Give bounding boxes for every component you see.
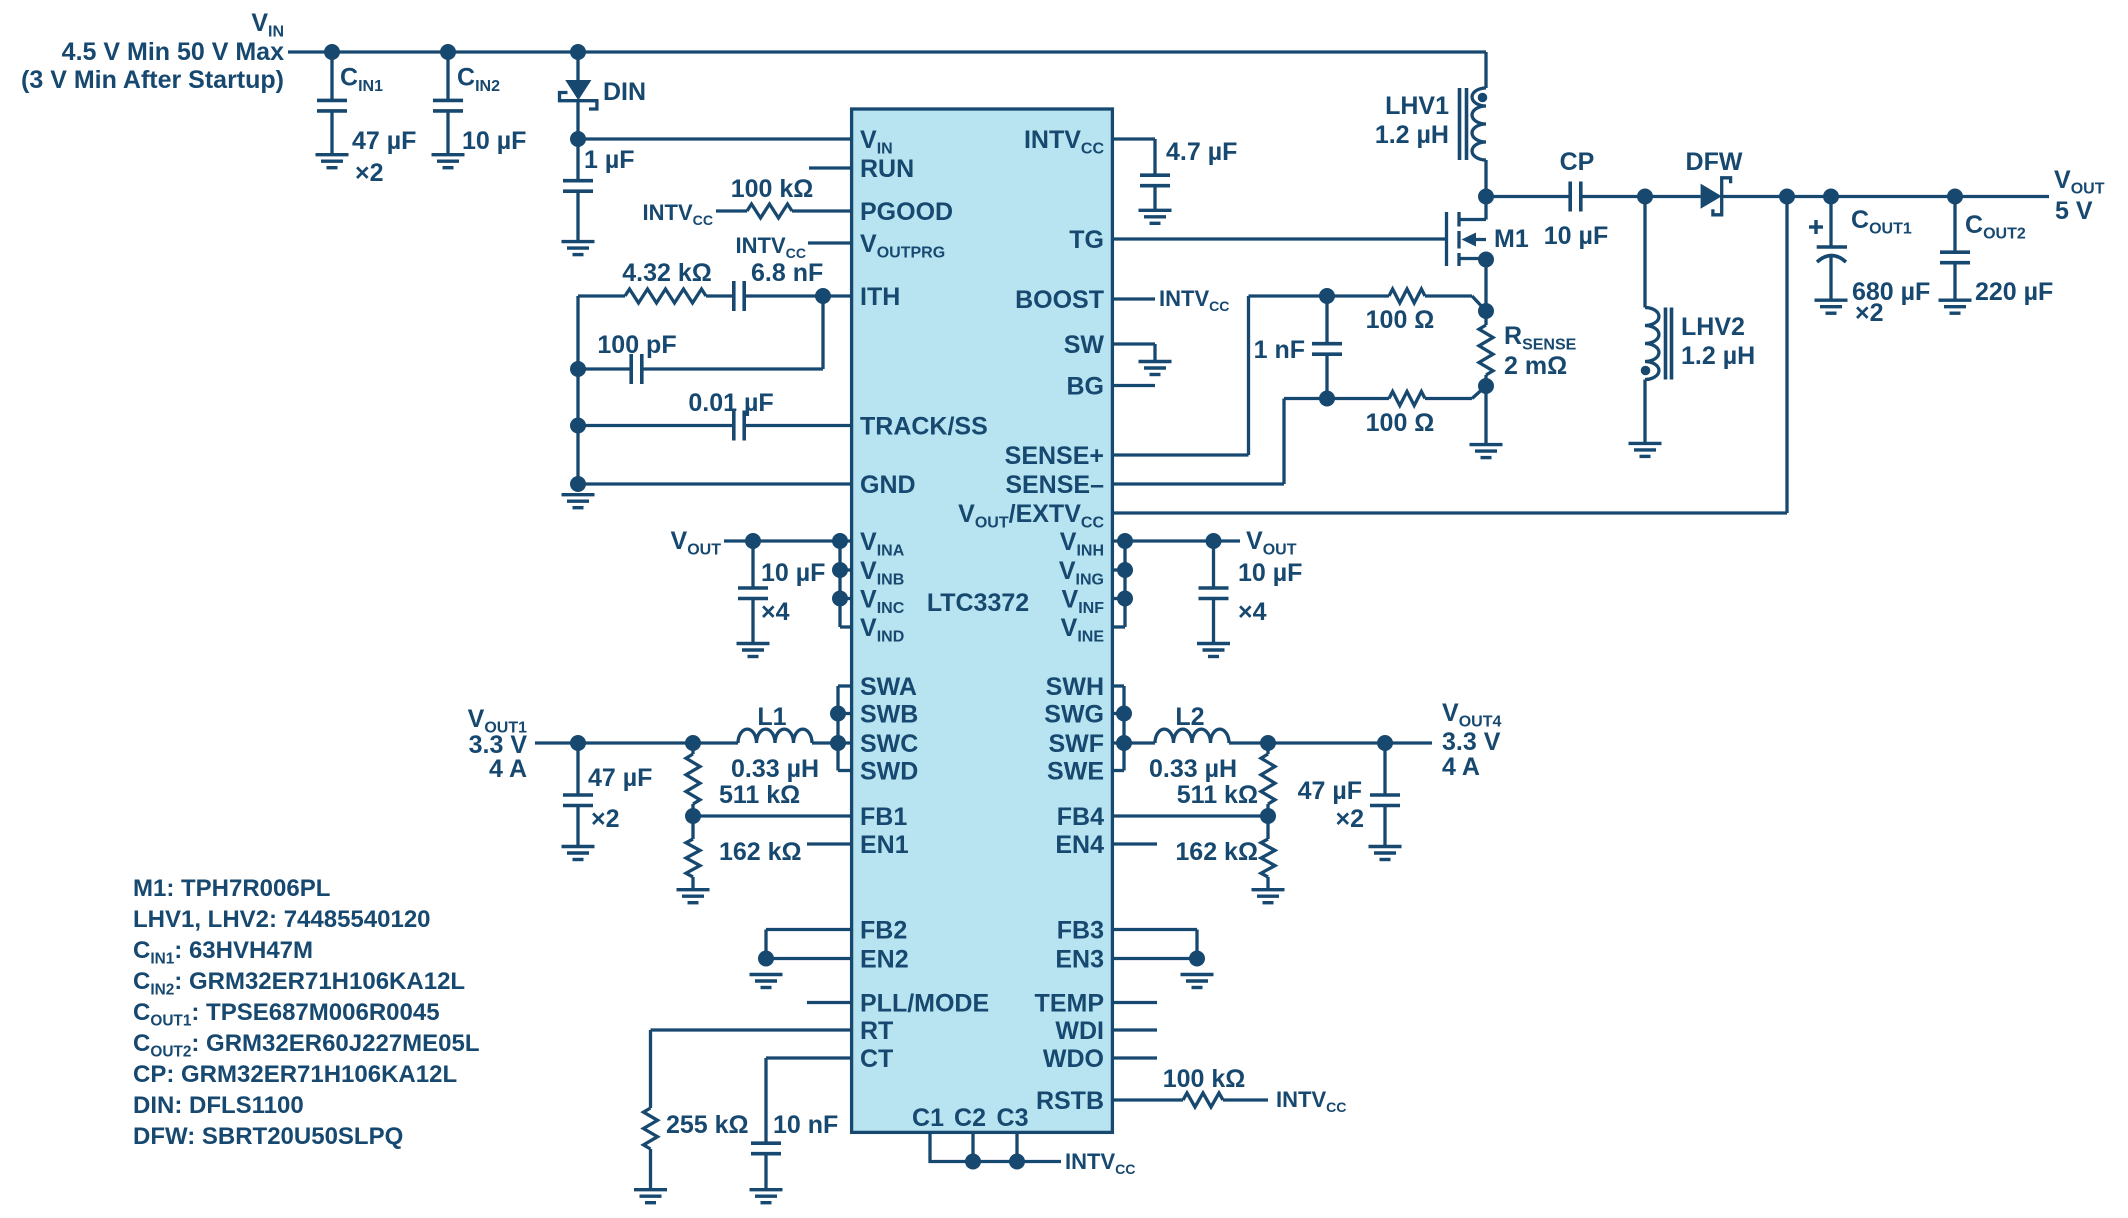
node junction VINB bbox=[832, 562, 848, 578]
ground 1uF bbox=[562, 242, 595, 255]
svg-text:EN3: EN3 bbox=[1055, 946, 1104, 974]
wire SW pin stub bbox=[1112, 344, 1155, 362]
pin label GND bbox=[860, 471, 916, 499]
svg-text:SWH: SWH bbox=[1046, 673, 1104, 701]
pin label SWE bbox=[1047, 758, 1104, 786]
node junction VINA bracket bbox=[832, 533, 848, 549]
capacitor 4.7uF bbox=[1112, 138, 1237, 210]
pin label WDI bbox=[1055, 1017, 1104, 1045]
wire RSENSE to ground bbox=[1484, 386, 1487, 445]
pin label VING bbox=[1059, 557, 1104, 589]
svg-text:10 µF: 10 µF bbox=[1238, 559, 1302, 587]
svg-text:DIN: DIN bbox=[603, 78, 646, 106]
wire FB1 pin bbox=[693, 814, 852, 817]
wire switch node rail bbox=[1486, 195, 1570, 198]
svg-text:255 kΩ: 255 kΩ bbox=[666, 1111, 749, 1139]
resistor 4.32k bbox=[578, 259, 734, 303]
node junction 47uF left bbox=[570, 735, 586, 751]
svg-text:FB2: FB2 bbox=[860, 917, 907, 945]
svg-text:LHV2: LHV2 bbox=[1681, 313, 1745, 341]
node junction ITH bbox=[815, 288, 831, 304]
wire BOOST pin stub bbox=[1112, 297, 1155, 300]
wire C1 C2 C3 to INTVCC bbox=[930, 1132, 1061, 1161]
node junction RSENSE top bbox=[1478, 303, 1494, 319]
svg-text:(3 V Min After Startup): (3 V Min After Startup) bbox=[21, 66, 284, 94]
inductor LHV2 1.2uH bbox=[1641, 197, 1755, 444]
svg-text:M1: M1 bbox=[1494, 225, 1529, 253]
pin label VOUT/EXTVCC bbox=[958, 500, 1104, 532]
parts list bbox=[133, 875, 480, 1150]
pin label SENSE+ bbox=[1005, 442, 1104, 470]
ground 162k right bbox=[1252, 890, 1285, 903]
node junction 47uF right bbox=[1377, 735, 1393, 751]
svg-text:SWD: SWD bbox=[860, 758, 918, 786]
transistor M1 bbox=[1447, 197, 1529, 312]
svg-text:0.01 µF: 0.01 µF bbox=[688, 389, 773, 417]
svg-text:SWE: SWE bbox=[1047, 758, 1104, 786]
svg-text:100 pF: 100 pF bbox=[597, 331, 676, 359]
svg-text:100 kΩ: 100 kΩ bbox=[731, 175, 814, 203]
ground EN2 bbox=[750, 975, 783, 988]
pin label FB1 bbox=[860, 803, 907, 831]
node junction 511k left bbox=[685, 735, 701, 751]
pin label PGOOD bbox=[860, 198, 953, 226]
node VOUT output label bbox=[2054, 166, 2105, 225]
node VIN input label bbox=[21, 9, 284, 94]
diode DFW bbox=[1686, 148, 1743, 215]
svg-text:×2: ×2 bbox=[1855, 299, 1884, 327]
wire CP to DFW bbox=[1581, 195, 1701, 198]
svg-text:511 kΩ: 511 kΩ bbox=[719, 781, 800, 809]
wire VINH row bbox=[1112, 539, 1240, 542]
svg-text:RUN: RUN bbox=[860, 155, 914, 183]
svg-text:FB4: FB4 bbox=[1057, 803, 1104, 831]
svg-text:C2: C2 bbox=[954, 1104, 986, 1132]
node junction VINC bbox=[832, 591, 848, 607]
wire BG pin stub bbox=[1112, 384, 1155, 387]
pin label SWD bbox=[860, 758, 918, 786]
pin label RUN bbox=[860, 155, 914, 183]
capacitor COUT2 220uF bbox=[1940, 197, 2053, 307]
svg-text:10 µF: 10 µF bbox=[1544, 222, 1608, 250]
pin label VIND bbox=[860, 614, 904, 646]
node junction EN2 bbox=[758, 951, 774, 967]
svg-text:SWC: SWC bbox=[860, 730, 918, 758]
resistor 511k left bbox=[686, 743, 800, 816]
ground COUT2 bbox=[1939, 300, 1972, 313]
wire PLL/MODE pin stub bbox=[807, 1001, 852, 1004]
wire sense top row bbox=[1249, 294, 1390, 297]
svg-text:1.2 µH: 1.2 µH bbox=[1375, 121, 1449, 149]
ground COUT1 bbox=[1815, 300, 1848, 313]
pin label VINH bbox=[1060, 528, 1104, 560]
ground SW bbox=[1139, 362, 1172, 375]
svg-text:2 mΩ: 2 mΩ bbox=[1504, 352, 1567, 380]
svg-text:TG: TG bbox=[1069, 226, 1104, 254]
wire GND pin bbox=[578, 482, 852, 485]
capacitor 6.8nF bbox=[734, 259, 852, 311]
capacitor 10uF x4 left bbox=[738, 541, 825, 644]
node junction DIN anode bbox=[570, 44, 586, 60]
wire VIN pin bbox=[578, 137, 852, 140]
svg-text:DFW: SBRT20U50SLPQ: DFW: SBRT20U50SLPQ bbox=[133, 1123, 403, 1150]
svg-text:TEMP: TEMP bbox=[1035, 990, 1104, 1018]
svg-text:4.7 µF: 4.7 µF bbox=[1166, 138, 1237, 166]
pin label EN3 bbox=[1055, 946, 1104, 974]
pin label SWF bbox=[1048, 730, 1104, 758]
svg-text:WDO: WDO bbox=[1043, 1045, 1104, 1073]
capacitor COUT1 680uF polarized bbox=[1809, 197, 1930, 328]
svg-text:LHV1: LHV1 bbox=[1385, 92, 1449, 120]
pin label SWB bbox=[860, 701, 918, 729]
net label VOUT right bbox=[1246, 527, 1297, 559]
pin label VINB bbox=[860, 557, 904, 589]
wire VIN top rail bbox=[288, 50, 1486, 53]
ground EN3 bbox=[1181, 975, 1214, 988]
svg-text:162 kΩ: 162 kΩ bbox=[719, 838, 802, 866]
pin label CT bbox=[860, 1045, 893, 1073]
wire SW A-D bracket bbox=[838, 686, 852, 771]
svg-text:4.5 V Min 50 V Max: 4.5 V Min 50 V Max bbox=[62, 38, 284, 66]
svg-text:CP: GRM32ER71H106KA12L: CP: GRM32ER71H106KA12L bbox=[133, 1061, 457, 1088]
resistor 100 ohm top bbox=[1366, 289, 1486, 334]
op-amp U1 LTC3372 regulator IC body bbox=[852, 109, 1113, 1132]
node junction EN3 bbox=[1189, 951, 1205, 967]
svg-text:162 kΩ: 162 kΩ bbox=[1175, 838, 1258, 866]
ground 10uF left bbox=[737, 644, 770, 657]
node junction RSENSE bottom bbox=[1478, 378, 1494, 394]
node junction M1 drain bbox=[1478, 189, 1494, 205]
node VOUT1 output label bbox=[468, 705, 528, 783]
ground 47uF right bbox=[1369, 847, 1402, 860]
node junction 10uF left bbox=[745, 533, 761, 549]
svg-text:1 nF: 1 nF bbox=[1254, 336, 1305, 364]
node junction VINH bracket bbox=[1117, 533, 1133, 549]
node junction COUT2 bbox=[1947, 189, 1963, 205]
wire VOUT/EXTVCC to output bbox=[1112, 197, 1787, 514]
svg-text:0.33 µH: 0.33 µH bbox=[731, 755, 819, 783]
svg-text:×4: ×4 bbox=[761, 598, 790, 626]
capacitor 0.01uF bbox=[578, 389, 852, 441]
net label INTVCC at BOOST bbox=[1159, 286, 1229, 314]
svg-text:4 A: 4 A bbox=[1442, 753, 1480, 781]
svg-text:M1: TPH7R006PL: M1: TPH7R006PL bbox=[133, 875, 330, 902]
svg-text:5 V: 5 V bbox=[2055, 197, 2093, 225]
pin label SWA bbox=[860, 673, 917, 701]
svg-text:DFW: DFW bbox=[1686, 148, 1743, 176]
node junction 0.01uF left bbox=[570, 418, 586, 434]
net label VOUT left bbox=[671, 527, 722, 559]
svg-text:EN4: EN4 bbox=[1055, 831, 1104, 859]
node junction SWB bbox=[830, 706, 846, 722]
wire VOUTPRG pin stub bbox=[808, 241, 852, 244]
pin label TG bbox=[1069, 226, 1104, 254]
svg-text:47 µF: 47 µF bbox=[352, 127, 416, 155]
pin label SWC bbox=[860, 730, 918, 758]
svg-text:LTC3372: LTC3372 bbox=[927, 589, 1029, 617]
pin label VOUTPRG bbox=[860, 230, 945, 262]
node junction DIN cathode / VIN pin bbox=[570, 131, 586, 147]
ground LHV2 bbox=[1629, 443, 1662, 456]
svg-text:RT: RT bbox=[860, 1017, 893, 1045]
svg-text:4.32 kΩ: 4.32 kΩ bbox=[622, 259, 712, 287]
node junction CIN2 bbox=[440, 44, 456, 60]
wire WDO pin stub bbox=[1112, 1056, 1157, 1059]
node junction 1nF bottom bbox=[1319, 391, 1335, 407]
wire VIN H-E bracket bbox=[1112, 541, 1125, 627]
pin label SW bbox=[1064, 331, 1105, 359]
capacitor CIN1 bbox=[317, 52, 416, 187]
svg-text:100 kΩ: 100 kΩ bbox=[1163, 1065, 1246, 1093]
pin label FB4 bbox=[1057, 803, 1104, 831]
pin label FB3 bbox=[1057, 917, 1104, 945]
net label INTVCC at PGOOD bbox=[643, 200, 713, 228]
pin label BOOST bbox=[1015, 286, 1104, 314]
svg-text:TRACK/SS: TRACK/SS bbox=[860, 413, 988, 441]
capacitor CIN2 bbox=[433, 52, 526, 155]
pin label TEMP bbox=[1035, 990, 1104, 1018]
svg-text:100 Ω: 100 Ω bbox=[1366, 306, 1435, 334]
wire SENSE- to sense network bbox=[1112, 399, 1284, 485]
svg-text:CT: CT bbox=[860, 1045, 893, 1073]
svg-text:47 µF: 47 µF bbox=[1298, 777, 1362, 805]
capacitor 10nF bbox=[751, 1111, 838, 1190]
wire SW H-E bracket bbox=[1112, 686, 1124, 771]
svg-text:47 µF: 47 µF bbox=[588, 764, 652, 792]
svg-text:WDI: WDI bbox=[1055, 1017, 1104, 1045]
node junction SWC bbox=[830, 735, 846, 751]
svg-text:BOOST: BOOST bbox=[1015, 286, 1104, 314]
resistor 100k RSTB bbox=[1112, 1065, 1268, 1107]
svg-text:RSTB: RSTB bbox=[1036, 1087, 1104, 1115]
pin label INTVCC bbox=[1024, 126, 1105, 158]
pin label C1 bbox=[912, 1104, 944, 1132]
pin label EN4 bbox=[1055, 831, 1104, 859]
svg-text:L2: L2 bbox=[1175, 703, 1204, 731]
node junction M1 source bbox=[1478, 252, 1494, 268]
wire ITH riser bbox=[821, 296, 824, 369]
svg-text:×2: ×2 bbox=[591, 805, 620, 833]
capacitor 47uF x2 left bbox=[563, 743, 652, 847]
resistor 511k right bbox=[1177, 743, 1275, 816]
ground 10uF right bbox=[1197, 644, 1230, 657]
svg-text:DIN: DFLS1100: DIN: DFLS1100 bbox=[133, 1092, 304, 1119]
wire RUN pin stub bbox=[809, 166, 852, 169]
svg-text:FB3: FB3 bbox=[1057, 917, 1104, 945]
ground CIN1 bbox=[316, 155, 349, 168]
svg-text:10 µF: 10 µF bbox=[761, 559, 825, 587]
pin label C2 bbox=[954, 1104, 986, 1132]
node junction SWF bbox=[1116, 735, 1132, 751]
svg-text:SWA: SWA bbox=[860, 673, 917, 701]
wire DFW to VOUT bbox=[1722, 195, 2049, 198]
wire SENSE+ to sense network bbox=[1112, 296, 1248, 455]
diode DIN bbox=[560, 52, 647, 139]
svg-text:×4: ×4 bbox=[1238, 598, 1267, 626]
inductor LHV1 1.2uH bbox=[1375, 52, 1487, 197]
svg-text:SWB: SWB bbox=[860, 701, 918, 729]
wire FB4 pin bbox=[1112, 814, 1268, 817]
wire FB2 to EN2 bbox=[766, 930, 852, 959]
pin label SENSE- bbox=[1005, 471, 1104, 499]
resistor 162k right bbox=[1175, 816, 1275, 890]
node junction SWG bbox=[1116, 706, 1132, 722]
wire TEMP pin stub bbox=[1112, 1001, 1157, 1004]
node VOUT4 output label bbox=[1442, 699, 1501, 781]
wire VOUT1 rail bbox=[535, 741, 738, 744]
svg-text:BG: BG bbox=[1067, 373, 1105, 401]
pin label BG bbox=[1067, 373, 1105, 401]
wire TG to M1 gate bbox=[1112, 237, 1446, 240]
capacitor CP 10uF bbox=[1544, 148, 1608, 250]
pin label PLL/MODE bbox=[860, 990, 989, 1018]
svg-text:SWG: SWG bbox=[1044, 701, 1104, 729]
svg-text:C1: C1 bbox=[912, 1104, 944, 1132]
pin label C3 bbox=[997, 1104, 1029, 1132]
wire VIN A-D bracket bbox=[840, 541, 852, 627]
svg-text:220 µF: 220 µF bbox=[1975, 278, 2053, 306]
inductor L1 0.33uH bbox=[731, 703, 838, 783]
svg-text:1 µF: 1 µF bbox=[584, 146, 635, 174]
wire VINA row bbox=[724, 539, 852, 542]
capacitor 1nF bbox=[1254, 296, 1342, 399]
node junction VINF bbox=[1117, 591, 1133, 607]
svg-text:EN1: EN1 bbox=[860, 831, 909, 859]
pin label VINA bbox=[860, 528, 905, 560]
pin label ITH bbox=[860, 283, 900, 311]
node junction 511k right bbox=[1260, 735, 1276, 751]
pin label RT bbox=[860, 1017, 893, 1045]
pin label EN2 bbox=[860, 946, 909, 974]
wire EN1 pin stub bbox=[807, 842, 852, 845]
ground 10nF bbox=[750, 1190, 783, 1203]
wire EN4 pin stub bbox=[1112, 842, 1157, 845]
ground ITH network bbox=[562, 495, 595, 508]
svg-text:6.8 nF: 6.8 nF bbox=[751, 259, 823, 287]
resistor 162k left bbox=[686, 816, 802, 890]
pin label SWG bbox=[1044, 701, 1104, 729]
node junction CIN1 bbox=[324, 44, 340, 60]
svg-text:L1: L1 bbox=[757, 703, 786, 731]
resistor RSENSE 2mOhm bbox=[1479, 311, 1577, 386]
node junction FB1 bbox=[685, 808, 701, 824]
pin label VINC bbox=[860, 586, 905, 618]
resistor 100k PGOOD bbox=[716, 175, 852, 218]
ground 162k left bbox=[677, 890, 710, 903]
svg-text:C3: C3 bbox=[997, 1104, 1029, 1132]
ground 255k bbox=[634, 1190, 667, 1203]
capacitor 10uF x4 right bbox=[1199, 541, 1303, 644]
node junction GND row bbox=[570, 476, 586, 492]
capacitor 47uF x2 right bbox=[1298, 743, 1400, 847]
svg-text:10 nF: 10 nF bbox=[773, 1111, 838, 1139]
resistor 100 ohm bottom bbox=[1366, 386, 1486, 437]
pin label WDO bbox=[1043, 1045, 1104, 1073]
wire WDI pin stub bbox=[1112, 1028, 1157, 1031]
svg-text:3.3 V: 3.3 V bbox=[1442, 728, 1501, 756]
pin label VINF bbox=[1062, 586, 1105, 618]
pin label EN1 bbox=[860, 831, 909, 859]
wire FB3 to EN3 bbox=[1112, 930, 1197, 959]
ground 47uF left bbox=[562, 847, 595, 860]
node junction VING bbox=[1117, 562, 1133, 578]
svg-text:CIN2: GRM32ER71H106KA12L: CIN2: GRM32ER71H106KA12L bbox=[133, 968, 465, 998]
svg-text:SENSE–: SENSE– bbox=[1005, 471, 1104, 499]
svg-text:GND: GND bbox=[860, 471, 916, 499]
svg-text:FB1: FB1 bbox=[860, 803, 907, 831]
node junction 100pF left bbox=[570, 361, 586, 377]
pin label VIN bbox=[860, 126, 893, 158]
node junction FB4 bbox=[1260, 808, 1276, 824]
svg-text:10 µF: 10 µF bbox=[462, 127, 526, 155]
node junction COUT1 bbox=[1823, 189, 1839, 205]
svg-text:×2: ×2 bbox=[1335, 805, 1364, 833]
node junction C2 bbox=[965, 1154, 981, 1170]
node junction LHV2 top bbox=[1637, 189, 1653, 205]
capacitor 1uF bbox=[563, 139, 635, 242]
net label INTVCC at RSTB bbox=[1276, 1087, 1346, 1115]
svg-text:4 A: 4 A bbox=[489, 755, 527, 783]
svg-text:PGOOD: PGOOD bbox=[860, 198, 953, 226]
svg-text:LHV1, LHV2: 74485540120: LHV1, LHV2: 74485540120 bbox=[133, 906, 431, 933]
svg-text:PLL/MODE: PLL/MODE bbox=[860, 990, 989, 1018]
svg-text:511 kΩ: 511 kΩ bbox=[1177, 781, 1258, 809]
svg-text:1.2 µH: 1.2 µH bbox=[1681, 342, 1755, 370]
svg-text:100 Ω: 100 Ω bbox=[1366, 409, 1435, 437]
capacitor 100pF bbox=[578, 331, 823, 384]
ground RSENSE bbox=[1470, 445, 1503, 458]
svg-text:×2: ×2 bbox=[355, 159, 384, 187]
pin label TRACK/SS bbox=[860, 413, 988, 441]
node junction 10uF right bbox=[1206, 533, 1222, 549]
svg-text:SWF: SWF bbox=[1048, 730, 1104, 758]
svg-text:0.33 µH: 0.33 µH bbox=[1149, 755, 1237, 783]
wire RT pin bbox=[651, 1030, 852, 1108]
svg-text:CP: CP bbox=[1560, 148, 1595, 176]
node junction C3 bbox=[1009, 1154, 1025, 1170]
svg-text:ITH: ITH bbox=[860, 283, 900, 311]
svg-text:EN2: EN2 bbox=[860, 946, 909, 974]
pin label FB2 bbox=[860, 917, 907, 945]
wire ITH left rail bbox=[576, 296, 579, 484]
resistor 255k bbox=[644, 1108, 749, 1190]
net label INTVCC at VOUTPRG bbox=[736, 233, 806, 261]
ground CIN2 bbox=[432, 155, 465, 168]
pin label VINE bbox=[1061, 614, 1105, 646]
wire VOUT4 rail bbox=[1229, 741, 1432, 744]
pin label SWH bbox=[1046, 673, 1104, 701]
wire sense bottom row bbox=[1284, 397, 1389, 400]
wire CT pin bbox=[766, 1058, 852, 1143]
node junction VOUT/EXTVCC riser bbox=[1779, 189, 1795, 205]
svg-text:SENSE+: SENSE+ bbox=[1005, 442, 1104, 470]
ground 4.7uF bbox=[1139, 210, 1172, 223]
svg-text:SW: SW bbox=[1064, 331, 1105, 359]
node junction 1nF top bbox=[1319, 288, 1335, 304]
inductor L2 0.33uH bbox=[1124, 703, 1237, 783]
net label INTVCC at C1C2C3 bbox=[1065, 1149, 1135, 1177]
pin label RSTB bbox=[1036, 1087, 1104, 1115]
